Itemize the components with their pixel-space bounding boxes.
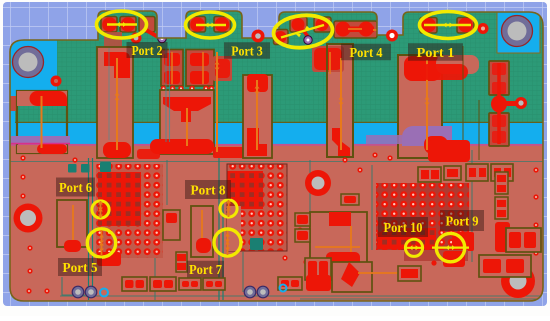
purple sliver left of G [366, 135, 402, 144]
label port 5 [58, 258, 102, 276]
port 5 circle [87, 229, 115, 257]
mid component (under port 8 region) [191, 206, 213, 257]
port 2 red trace stub [104, 32, 122, 54]
A1 red patch [98, 172, 141, 226]
pad right of port3 components [213, 56, 232, 81]
small component above A3 [418, 167, 441, 182]
salmon band right of G top [436, 55, 479, 74]
red diagonal trace to purple via [300, 26, 309, 38]
red cluster bottom mid [306, 275, 331, 291]
A3 red patches [398, 228, 436, 250]
purple blob bottom of G [402, 126, 452, 146]
mounting hole top-right [502, 16, 533, 47]
A2 red patch [227, 171, 263, 209]
port 10 circle [405, 239, 422, 256]
via on top edge between tabs [252, 30, 265, 43]
salmon notch in A2 lower-left [227, 206, 241, 251]
red bar pad below V3 [150, 139, 214, 154]
label port 10 [378, 217, 428, 237]
via right of H [515, 97, 527, 109]
small component lower [176, 252, 187, 272]
mounting hole center [305, 170, 331, 196]
teal signal traces [88, 158, 90, 300]
port 2 excitation line [107, 23, 137, 25]
small brick pad left edge [10, 96, 17, 111]
cyan vertical trace (under port2 col) [108, 48, 110, 140]
red pads bottom-left of A1 [97, 252, 121, 266]
port 4 lower-left pad (overlaps edge) [274, 30, 289, 45]
component with red diamond [332, 262, 372, 292]
red blob on purple [424, 136, 448, 154]
red pad right of port 1 [478, 23, 489, 34]
H mid red blob [491, 96, 507, 113]
scattered vias left [20, 155, 25, 160]
red bar below cyan (port3 net) [213, 147, 248, 158]
red band from G blob [420, 64, 468, 80]
component F column below port 4 [327, 44, 353, 157]
via above D [51, 76, 62, 87]
port 1 tab pads [420, 18, 437, 34]
port 4 feed pads [334, 21, 377, 38]
dark pads row below A3 [404, 250, 468, 261]
svg-text:Port 6: Port 6 [59, 180, 92, 195]
top copper ground plane (green) [10, 8, 543, 123]
cyan rings bottom [100, 289, 108, 297]
component G column below port 1 [398, 55, 442, 158]
port 9 circle [436, 233, 464, 261]
red pad bottom of port2 column [103, 142, 131, 158]
red patch above A3 [428, 140, 470, 162]
trace lines right zone [462, 46, 464, 157]
svg-text:Port 5: Port 5 [63, 260, 98, 275]
port 4 ellipse (tilted) [272, 13, 334, 50]
right side components [466, 164, 488, 181]
mounting hole bottom-left [14, 204, 43, 233]
orange trace bottom right [358, 272, 412, 274]
cyan strip top border [10, 121, 543, 123]
label port 3 [224, 42, 270, 59]
small horizontal component [341, 194, 359, 205]
red blob top of D [30, 91, 68, 106]
svg-text:Port 2: Port 2 [132, 43, 163, 58]
port 3 tab pads [189, 17, 206, 33]
svg-text:Port 3: Port 3 [231, 44, 263, 59]
pad array A1 [96, 164, 163, 258]
label port 4 [341, 44, 391, 61]
traces in small components [171, 52, 173, 84]
horizontal cyan layer strip [10, 123, 543, 144]
pad array A3 [376, 183, 469, 250]
port 3 ellipse [186, 12, 235, 38]
port 2 tab pads [101, 17, 117, 33]
pad array A2 [227, 164, 287, 251]
teal pad on A2 [250, 238, 263, 250]
cyan vertical trace pair (left) [165, 46, 167, 142]
label port 9 [440, 210, 484, 231]
red elbow pad [104, 52, 130, 78]
port 6 circle [92, 201, 109, 218]
svg-text:Port 7: Port 7 [189, 262, 222, 277]
label port 7 [187, 261, 224, 278]
label port 8 [185, 180, 231, 199]
component H lower box [489, 113, 509, 146]
orange trace top right [373, 29, 404, 31]
via top right of port4 tab [386, 30, 398, 42]
port 4 excitation line [281, 25, 324, 38]
bottom edge connector circles purple [72, 286, 84, 298]
top-right cyan block [497, 12, 540, 53]
red blob bottom of D [37, 144, 67, 154]
center-bottom big component [310, 212, 367, 273]
svg-text:Port 4: Port 4 [350, 45, 383, 60]
port 2 ellipse [97, 11, 147, 38]
teal pad on A1 [100, 162, 111, 172]
big red pad top of G [404, 56, 441, 81]
stub to via [504, 101, 517, 106]
bright red vertical pad [495, 222, 510, 252]
trace port2 column [116, 58, 118, 150]
port 1 ellipse [420, 12, 477, 39]
scattered vias right-bottom [343, 252, 348, 257]
vias near bottom right [431, 260, 436, 265]
label port 2 [127, 42, 168, 58]
mounting hole bottom-right [501, 264, 535, 298]
port 8 circle [220, 200, 237, 217]
red fan pad [163, 97, 211, 122]
purple via port4 [304, 36, 312, 44]
component D (left large) [17, 91, 67, 153]
via row [161, 86, 167, 92]
svg-text:Port 8: Port 8 [191, 183, 226, 198]
cyan strip bottom magenta edge [10, 144, 543, 146]
mounting hole top-left [13, 47, 44, 78]
label port 6 [56, 178, 95, 197]
component cluster left of port5 [57, 200, 87, 247]
label port 1 [408, 43, 463, 61]
small component pair under port 3 [161, 50, 183, 87]
red diagonal trace from port2 tab [146, 30, 159, 38]
red elbow bottom of E [247, 128, 267, 156]
trace port3 column [216, 52, 218, 152]
small pair left of it [295, 213, 310, 226]
component column below port 2 [97, 47, 133, 158]
svg-text:Port 1: Port 1 [417, 45, 455, 60]
top-left cyan corner block [10, 40, 57, 106]
component E column [243, 75, 272, 158]
port 4 tab pads (upper two) [290, 17, 307, 32]
purple band in D [11, 136, 70, 144]
component V3 (mid) [160, 90, 214, 154]
bottom row small components [122, 277, 147, 291]
port 7 circle [214, 229, 241, 256]
svg-text:Port 9: Port 9 [446, 214, 479, 229]
component H upper box [489, 61, 509, 95]
red elbow bottom of F [332, 128, 350, 156]
H center trace [497, 63, 501, 144]
svg-text:Port 10: Port 10 [384, 220, 423, 235]
small component left [163, 210, 180, 240]
teal pads above port 6 [68, 164, 77, 173]
red stub below V3 bar [137, 149, 160, 159]
via top mid (port3 left) [131, 33, 142, 44]
